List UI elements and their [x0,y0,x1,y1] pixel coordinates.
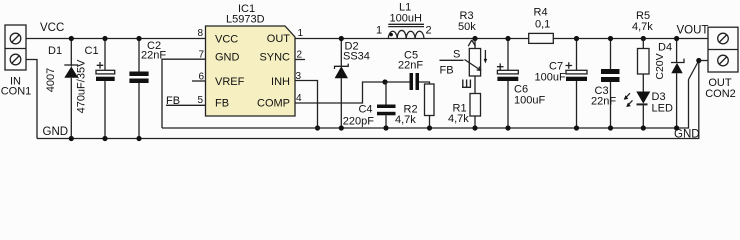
svg-text:FB: FB [215,98,229,110]
svg-text:CON2: CON2 [705,88,736,100]
pin 7 wire to GND bus [162,50,206,129]
svg-text:5: 5 [197,95,203,106]
svg-text:GND: GND [43,126,69,138]
svg-text:CON1: CON1 [1,86,32,98]
resistor R2 [395,84,434,131]
wire GND rail [37,61,699,139]
svg-text:GND: GND [674,129,700,141]
label IN CON1 [1,76,32,98]
svg-text:D4: D4 [658,42,672,54]
wire CON1 to GND rail [26,60,37,139]
svg-text:220pF: 220pF [343,116,374,128]
resistor R4 [529,7,554,44]
svg-text:1: 1 [298,28,304,39]
capacitor C1 [76,36,115,141]
svg-text:D3: D3 [652,91,666,103]
label OUT CON2 [705,77,736,100]
pin 6 stub VREF [192,72,206,83]
svg-text:8: 8 [197,28,203,39]
svg-text:4,7k: 4,7k [632,21,653,33]
svg-text:OUT: OUT [267,33,291,45]
pin 3 INH wire to bus [295,71,320,131]
svg-text:VCC: VCC [215,34,238,46]
svg-text:L5973D: L5973D [226,14,265,26]
svg-text:D1: D1 [48,45,62,57]
pin 2 stub SYNC [295,50,305,61]
wire VCC rail [26,38,206,40]
svg-text:VCC: VCC [40,22,64,34]
pin 5 FB stub and net label FB [166,95,206,107]
connector CON1 [5,25,26,70]
op-amp U1 : IC1 L5973D body [206,3,296,116]
svg-text:4,7k: 4,7k [395,114,416,126]
node junction at CON2 gnd [696,58,701,63]
LED D3 [624,91,673,131]
svg-text:FB: FB [166,95,180,107]
connector CON2 [708,27,738,72]
svg-text:C4: C4 [358,104,372,116]
inductor L1 [376,2,432,39]
svg-text:VREF: VREF [215,76,245,88]
svg-text:0,1: 0,1 [535,19,550,31]
svg-text:FB: FB [440,65,454,77]
wire to CON2 lower screw [699,60,708,62]
svg-text:4007: 4007 [45,68,57,92]
svg-text:470uF/35V: 470uF/35V [76,59,88,113]
svg-text:R4: R4 [534,7,548,19]
svg-text:COMP: COMP [257,98,290,110]
potentiometer R3 [440,10,488,94]
capacitor C6 [497,36,546,131]
svg-text:100uF: 100uF [514,95,545,107]
svg-text:SS34: SS34 [343,51,370,63]
svg-text:SYNC: SYNC [259,52,290,64]
capacitor C4 [343,82,396,131]
wire FB/GND bus [162,80,689,129]
wiper terminal glyph [462,80,471,88]
diode D2 SS34 schottky [335,36,370,131]
pin 4 COMP wire [295,82,385,104]
svg-text:22nF: 22nF [591,96,616,108]
svg-text:1: 1 [376,25,382,37]
capacitor C2 [129,36,166,141]
wire OUT rail [295,38,708,40]
svg-text:LED: LED [652,103,673,115]
svg-text:100uF: 100uF [535,72,566,84]
svg-text:2: 2 [426,25,432,37]
capacitor C7 [535,36,588,131]
svg-text:C1: C1 [85,45,99,57]
wire join diagonal [689,61,699,80]
svg-text:VOUT: VOUT [677,25,709,37]
svg-text:GND: GND [215,52,240,64]
svg-text:22nF: 22nF [398,60,423,72]
svg-text:100uH: 100uH [390,13,422,25]
svg-text:S: S [453,49,460,61]
resistor R1 [448,94,481,131]
svg-text:INH: INH [271,76,290,88]
resistor R5 [632,10,653,92]
capacitor C3 [591,36,620,131]
capacitor C5 [382,50,429,91]
zener diode D4 [654,36,684,131]
svg-text:50k: 50k [458,21,476,33]
diode D1 [45,36,78,141]
svg-text:C20V: C20V [654,53,666,79]
svg-text:4,7k: 4,7k [448,113,469,125]
